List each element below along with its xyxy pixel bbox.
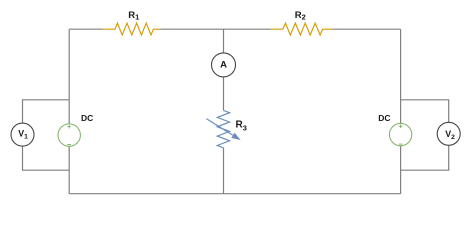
svg-text:DC: DC (378, 113, 390, 123)
svg-text:DC: DC (81, 113, 93, 123)
svg-text:A: A (220, 60, 227, 71)
